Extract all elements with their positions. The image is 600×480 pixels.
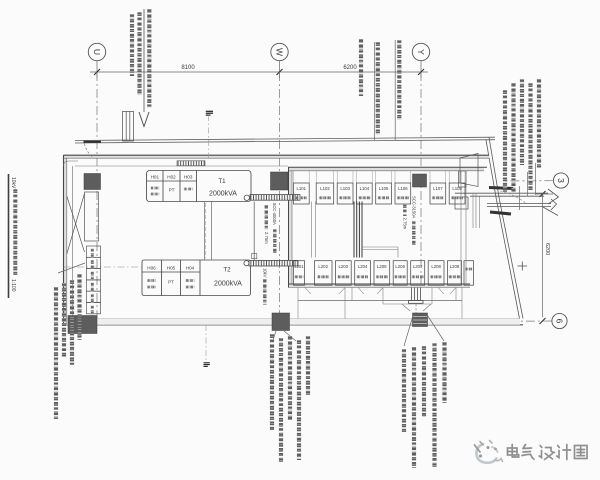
section mark bottom [204,363,210,367]
svg-text:10kV: 10kV [10,177,16,189]
switchgear panel L101 [294,183,310,204]
svg-text:H03: H03 [184,175,193,180]
grid bubble U [88,43,105,60]
annotation block bottom-left col2 [70,280,74,365]
svg-text:L205: L205 [377,264,387,269]
column top-right [413,174,427,187]
bottom wall chamfer bays [298,288,462,319]
leader line top-left annotation [143,9,145,112]
right dimension line 6200 [536,194,553,317]
svg-text:L206: L206 [395,264,405,269]
busduct riser T1-T2 [253,202,255,261]
svg-text:L203: L203 [339,264,349,269]
svg-text:2.75m: 2.75m [403,218,408,230]
T1 LV terminal box [244,195,249,200]
cable trench above T1 [177,161,205,166]
switchgear panel L204 [355,261,371,286]
glyph 气 [522,445,534,460]
centerline T1 room [205,203,207,258]
annotation riser note 2 [130,14,134,76]
grid bubble W [271,43,288,60]
wall top (switchgear room) [288,167,487,171]
small cubicle behind L108 [455,197,468,209]
annotation 600x200 tray [397,40,401,120]
glyph 电 [508,445,519,458]
switchgear panel L107 [430,183,446,204]
annotation 300x150 tray (10kV) [147,9,151,108]
svg-text:W: W [275,48,285,56]
switchgear panel L108 [449,183,465,204]
annotation block bottom-left col1 [77,274,81,340]
annotation block bottom-mid col4 [297,340,301,460]
svg-text:L201: L201 [294,264,304,269]
svg-text:Y: Y [416,49,426,55]
grid bubble 3 [553,173,568,188]
annotation block bottom-right col2 [412,347,416,468]
annotation block bottom-right col5 [442,342,446,403]
busduct T1 to switchboard [250,195,300,201]
wall opening break (right, near grid 3) [455,189,559,216]
annotation block top-right col3 [520,79,524,165]
svg-text:PT: PT [169,188,175,193]
switchgear panel L103 [337,183,353,204]
svg-text:2000kVA: 2000kVA [209,191,237,198]
glyph 计 [557,445,571,460]
riser duct through bottom wall [409,288,424,304]
annotation block bottom-mid col2 [279,338,283,462]
glyph 设 [539,446,554,460]
dimension ticks [94,69,424,75]
svg-text:U: U [92,49,102,55]
grid line Y (dash-dot) [420,72,422,284]
title bar line (left) [8,174,10,298]
svg-text:SCC-3150A: SCC-3150A [412,196,417,219]
funnel diagonals at riser duct [402,304,431,313]
annotation air shaft (mid-top) [359,39,363,96]
wall corner fillet top-left [64,161,79,166]
svg-text:6: 6 [555,319,565,324]
centerline from section mark [208,115,210,158]
right dimension ticks [540,191,546,324]
svg-text:L107: L107 [433,186,443,191]
door leaf on left wall [67,192,99,254]
svg-text:L204: L204 [358,264,368,269]
svg-text:H06: H06 [147,266,156,271]
annotation block top-right col2 [528,83,532,190]
svg-text:6200: 6200 [343,65,357,71]
svg-text:L104: L104 [360,186,370,191]
svg-text:H05: H05 [167,266,176,271]
switchgear panel L205 [374,261,390,286]
annotation block top-right col4 [511,83,515,192]
svg-text:2000kVA: 2000kVA [214,281,242,288]
annotation block top-right col1 [537,79,541,168]
cable riser at top wall [123,112,134,142]
svg-text:L207: L207 [413,264,423,269]
wall fill bands [64,155,521,325]
column bottom-left [68,316,97,334]
watermark text 电气设计圈 (drawn glyphs) [508,445,588,460]
busduct T2 incoming [249,260,298,266]
column bottom-W [272,313,290,331]
label down-turn busduct (rotated) [403,204,406,216]
transformer T2 enclosure [142,260,251,296]
arrow top-left annotation [139,112,149,127]
annotation block top-right col5 [503,90,507,193]
panel-to-wall stubs upper row [294,171,466,183]
centerline door corridor [64,266,143,268]
switchgear panel L202 [315,261,333,286]
grid line 3 (dash-dot) [503,180,553,182]
right door swing arc [500,191,527,204]
section mark top [206,111,213,115]
svg-text:L106: L106 [398,186,408,191]
wall switchgear room bottom [289,284,471,301]
wall switchgear room left [289,167,293,287]
svg-text:L103: L103 [340,186,350,191]
annotation block bottom-left col3 [62,283,66,357]
svg-text:2.75m: 2.75m [264,232,269,244]
grid bubble Y [412,43,429,60]
switchgear panel L105 [376,183,392,204]
grid line W (dash-dot) [279,72,281,330]
bus riser dashed middle [312,171,467,284]
grid line U (dash-dot) [96,72,98,318]
switchgear panel L208 [428,261,444,286]
switchgear panel L206 [393,261,407,286]
annotation block bottom-right col3 [422,346,426,417]
svg-text:T1: T1 [218,178,226,185]
svg-text:SCC-4000A: SCC-4000A [272,203,277,226]
annotation block bottom-right col4 [432,343,436,467]
svg-text:L202: L202 [318,264,328,269]
svg-text:L105: L105 [379,186,389,191]
switchgear panel L104 [357,183,373,204]
entry door swing arc (dashed) [85,144,94,158]
top dimension line 8100/6200 [90,61,428,79]
svg-text:L102: L102 [320,186,330,191]
door opening jamb verticals [473,193,480,228]
slab top edge line [75,137,495,143]
svg-text:L101: L101 [297,186,307,191]
riser duct between H03 and T2 [205,202,212,261]
cabinet stack labels [91,249,94,258]
column top-W [271,172,289,190]
midpoint tick on right dimension [518,262,528,271]
switchgear panel L207 [411,261,425,286]
annotation block bottom-right col1 [402,349,406,432]
switchgear panel L201 [294,261,305,286]
leader diagonals bottom-right duct [404,314,414,346]
switchgear panel L106 [395,183,411,204]
glyph 圈 [575,446,588,459]
T2 busduct end circle [244,261,249,266]
wall top (transformer rooms) [64,155,490,166]
svg-text:3: 3 [556,178,566,183]
entry door leaf on slab [84,141,102,143]
svg-text:10kV: 10kV [263,268,268,278]
svg-text:6200: 6200 [544,243,550,255]
small cabinet stack on left wall [87,246,101,314]
switchgear panel L102 [316,183,334,204]
annotation block bottom-left col4 [54,287,58,419]
svg-text:H01: H01 [151,175,160,180]
svg-text:PT: PT [168,280,174,285]
svg-text:T2: T2 [223,267,231,274]
leader lines top-right annotations [535,163,537,195]
centerline to bottom section mark [205,325,207,362]
watermark logo [475,441,503,463]
leader bottom-left block [58,263,85,273]
transformer T1 enclosure [147,171,252,202]
thick wall stubs at right door [489,188,513,189]
column top-left [84,174,101,190]
svg-text:L208: L208 [431,264,441,269]
annotation block bottom-mid col1 [270,334,274,430]
louver door in right wall [459,154,479,188]
svg-text:H02: H02 [167,175,176,180]
slab bottom edge line [64,319,524,325]
svg-text:H04: H04 [186,266,195,271]
slab right slanted edge [486,137,523,318]
switchgear panel L209 [448,261,462,286]
wall left outer [64,155,73,325]
annotation riser note 1 [137,12,141,95]
svg-text:8100: 8100 [181,65,195,71]
grid bubble 6 [552,313,567,328]
switchgear panel L203 [336,261,352,286]
spare cubicle [464,261,474,286]
bus riser between panel rows [354,202,362,258]
svg-text:1:100: 1:100 [10,279,16,292]
column bottom-right (hatched) [413,313,428,327]
grid line 6 (dash-dot) [455,320,552,323]
annotation 800x200 tray [376,42,380,135]
leader diagonals bottom-W column [273,331,276,340]
svg-text:L209: L209 [450,264,460,269]
annotation block bottom-mid col3 [288,336,292,420]
